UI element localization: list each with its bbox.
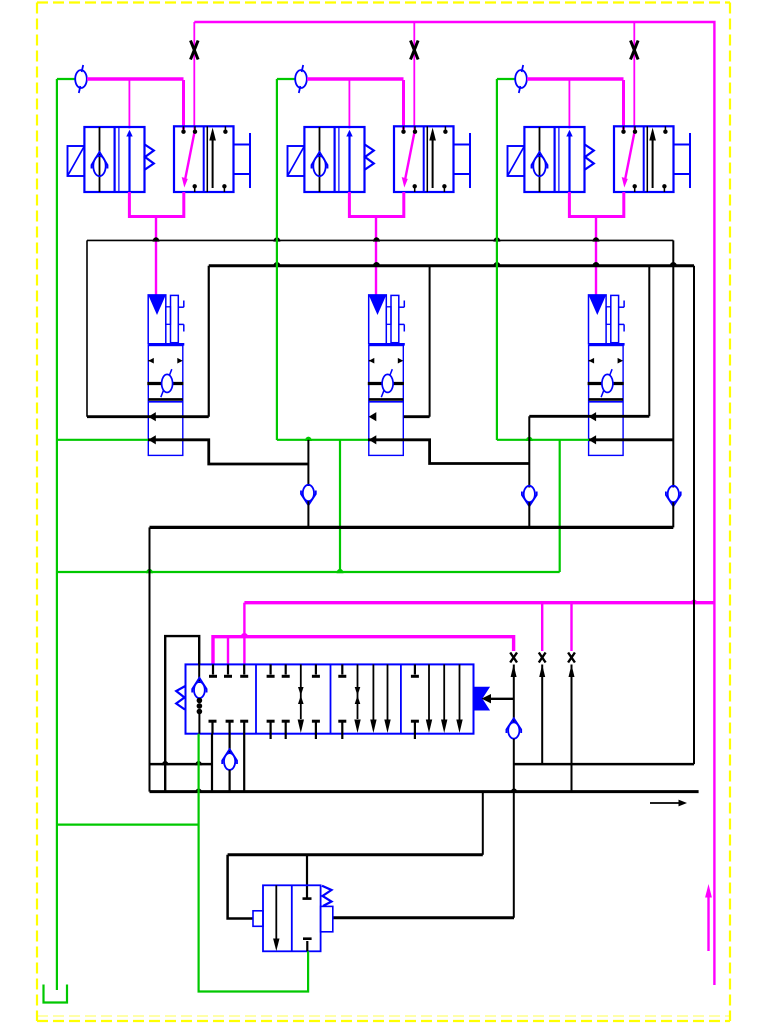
spring of pilot control valve xyxy=(322,886,332,906)
A-port arrow assembly 1 xyxy=(148,412,156,421)
wire: magenta drop from top rail to valve 1 pilot port xyxy=(193,22,195,130)
pilot valve Y3b body xyxy=(614,126,674,192)
cartridge valve assembly 1: main body xyxy=(148,346,183,456)
flow arrow inside valve Y1a xyxy=(128,134,130,191)
up arrow inside valve Y1b xyxy=(212,139,214,188)
magenta actuated path inside valve Y3b xyxy=(625,130,635,182)
wire: assembly 2 A-line xyxy=(404,415,430,418)
solenoid coil of valve Y3a xyxy=(508,146,525,176)
wire: magenta drop to pilot valve 2 port 1 xyxy=(402,80,405,130)
bottom port tick pilot control valve xyxy=(306,941,308,951)
internal check valve assembly 1 xyxy=(147,382,183,385)
wire: magenta drop to solenoid valve 2 xyxy=(348,79,350,129)
wire: magenta rail group 3 xyxy=(527,77,624,80)
relief outlet loop over block top xyxy=(165,636,199,792)
magenta actuated path inside valve Y1b xyxy=(185,130,195,182)
check valve V3 (top) xyxy=(515,70,527,88)
check valve under X1 xyxy=(508,722,519,738)
pilot arrow assembly 2 xyxy=(369,295,387,315)
check valve V2 (top) xyxy=(295,70,307,88)
plugged-line X symbol group 2 xyxy=(411,41,419,60)
green supply stub group 3 xyxy=(497,78,516,80)
straight path inside valve Y3b xyxy=(646,126,648,192)
wire: magenta drop to block port 3 xyxy=(243,603,245,665)
throttle symbols inside block xyxy=(300,664,302,719)
cartridge valve assembly 1: pilot head xyxy=(148,295,166,344)
green supply stub group 2 xyxy=(277,78,296,80)
wire: outlet flag to X1 riser xyxy=(489,698,514,700)
wire: green feed to assembly 1 B xyxy=(57,439,148,441)
up arrow inside valve Y3b xyxy=(652,139,654,188)
magenta flow direction arrow bottom right xyxy=(707,895,709,951)
pilot arrow assembly 3 xyxy=(589,295,607,315)
wire: block port 1 drop xyxy=(211,734,213,792)
manifold block body xyxy=(186,664,474,733)
wire: magenta drop to solenoid valve 1 xyxy=(128,79,130,129)
wire: green drop group 2 xyxy=(276,79,278,440)
B-port arrow assembly 3 xyxy=(589,435,597,444)
separator lines assembly 2 xyxy=(369,398,404,401)
wire: magenta jog below valves group 1 xyxy=(129,192,183,217)
wire: magenta rail group 2 xyxy=(307,77,404,80)
wire: X2 drop to mid line xyxy=(541,665,543,765)
port dots valve Y2b xyxy=(403,126,405,130)
plugged-line X symbol group 1 xyxy=(191,41,199,60)
wire: riser with check valve from B1 junction to pump rail xyxy=(307,440,309,486)
inlet arrows assembly 3 xyxy=(589,358,595,364)
pilot attachment box xyxy=(321,906,333,931)
wire: assembly 3 A-line xyxy=(529,415,649,418)
wire: green drop to lower green bus xyxy=(339,440,341,572)
A-port arrow assembly 2 xyxy=(369,412,377,421)
cartridge valve assembly 3: pilot head xyxy=(589,295,607,344)
solenoid coil of valve Y1a xyxy=(68,146,85,176)
A-port arrow assembly 3 xyxy=(589,412,597,421)
B-port arrow assembly 2 xyxy=(369,435,377,444)
wire: mid line 1 left xyxy=(150,763,213,766)
up arrowhead below X xyxy=(539,665,545,678)
wire: drop rail to assembly 2 A-line xyxy=(429,266,431,417)
wire: upper black rail (thin) xyxy=(87,239,673,241)
port dots valve Y1b xyxy=(183,126,185,130)
pilot arrow assembly 1 xyxy=(148,295,166,315)
wire: assembly 2 B-line black jog xyxy=(368,440,529,464)
wire: magenta drop to solenoid valve 3 xyxy=(568,79,570,129)
wire: pilot valve top line xyxy=(228,853,483,856)
plugged-line X symbol lower xyxy=(568,653,575,663)
solenoid valve Y1a body xyxy=(84,127,144,192)
pilot valve Y1b body xyxy=(174,126,234,192)
flow arrows inside block xyxy=(372,664,374,721)
cartridge valve assembly 2: pilot head xyxy=(369,295,387,344)
separator lines assembly 3 xyxy=(589,398,624,401)
straight path inside valve Y1b xyxy=(206,126,208,192)
wire: lower black rail (thick) xyxy=(209,264,694,267)
wire: mid line segment right xyxy=(514,763,694,766)
relief valve spring at block left xyxy=(176,686,185,710)
wire: magenta drop to X2 xyxy=(541,603,543,651)
wire: green drop to lower green bus right xyxy=(559,440,561,572)
wire: magenta drop to cartridge assembly 1 xyxy=(155,217,157,295)
wire: magenta drop to pilot valve 3 port 1 xyxy=(622,80,625,130)
return spring of valve Y1a xyxy=(145,145,154,170)
wire: drop from pump rail to manifold lines xyxy=(149,527,151,791)
actuator bracket of valve Y3b xyxy=(674,144,691,146)
return spring of valve Y2a xyxy=(365,145,374,170)
flow direction arrow xyxy=(650,802,681,804)
wire: magenta rail group 1 xyxy=(87,77,184,80)
up arrowhead below X xyxy=(511,665,517,678)
wire: green branch to tank line xyxy=(57,823,199,825)
wire: magenta jog below valves group 2 xyxy=(349,192,403,217)
inlet arrows assembly 2 xyxy=(369,358,375,364)
wire: magenta manifold rail B xyxy=(213,637,514,665)
check symbol inside valve Y1a xyxy=(99,127,101,192)
wire: magenta pilot supply top rail and right-side rail xyxy=(194,22,714,985)
wire: assembly 3 B-line black xyxy=(589,438,673,441)
down arrow inside pilot control valve xyxy=(275,885,277,942)
return spring of valve Y3a xyxy=(585,145,594,170)
check valve V1 (top) xyxy=(75,70,87,88)
wire: assembly 1 B-line black xyxy=(148,440,308,464)
wire: green feed to assembly 2 B xyxy=(277,439,368,441)
wire: magenta drop from top rail to valve 3 pilot port xyxy=(633,22,635,130)
wire: magenta jog below valves group 3 xyxy=(569,192,623,217)
check symbol inside valve Y2a xyxy=(319,127,321,192)
wire: riser from upper rail through check to pump rail right xyxy=(672,240,674,487)
straight path inside valve Y2b xyxy=(426,126,428,192)
internal check valve assembly 2 xyxy=(368,382,404,385)
wire: magenta drop to cartridge assembly 2 xyxy=(375,217,377,295)
plugged-line X symbol lower xyxy=(539,653,546,663)
wire: magenta drop to pilot valve 1 port 1 xyxy=(182,80,185,130)
check valve under block port 2 xyxy=(229,734,231,754)
wire: thick rail right end drop xyxy=(693,266,695,764)
separator lines assembly 1 xyxy=(148,398,183,401)
magenta actuated path inside valve Y2b xyxy=(405,130,415,182)
wire: thick rail left end drop xyxy=(208,266,210,417)
up arrow inside valve Y2b xyxy=(432,139,434,188)
pilot valve Y2b body xyxy=(394,126,454,192)
plugged-line X symbol group 3 xyxy=(631,41,639,60)
solenoid coil of pilot control valve xyxy=(253,911,263,927)
flow arrow inside valve Y3a xyxy=(568,134,570,191)
flow arrow inside valve Y2a xyxy=(348,134,350,191)
port dots valve Y3b xyxy=(623,126,625,130)
wire: magenta manifold rail A xyxy=(244,601,714,604)
wire: pump pressure rail (thick) xyxy=(150,526,674,529)
B-port arrow assembly 1 xyxy=(148,435,156,444)
wire: magenta drop to block port 2 xyxy=(227,637,229,665)
wire: rail drop left to assembly 1 A-line xyxy=(86,240,88,416)
up arrowhead below X xyxy=(569,665,575,678)
wire: green feed to assembly 3 B xyxy=(497,439,589,441)
wire: riser X1/check to pilot valve line xyxy=(513,739,515,918)
relief/check valve inside block section 1 xyxy=(198,664,200,683)
wire: green block drain to pilot valve bottom xyxy=(199,734,309,992)
pilot control valve body (bottom) xyxy=(263,885,321,951)
inlet arrows assembly 1 xyxy=(148,358,154,364)
wire: X3 drop to lower line xyxy=(571,665,573,792)
tank symbol xyxy=(44,985,68,1003)
wire: pilot valve right line xyxy=(333,916,514,919)
wire: drop tank line to pilot valve top line xyxy=(482,792,484,855)
solenoid valve Y3a body xyxy=(524,127,584,192)
wire: magenta drop to cartridge assembly 3 xyxy=(595,217,597,295)
check symbol inside valve Y3a xyxy=(539,127,541,192)
wire: pilot valve top port xyxy=(306,855,308,899)
actuator bracket of valve Y1b xyxy=(234,144,251,146)
manifold block top port stubs xyxy=(212,664,214,674)
wire: tank line (thick lower) xyxy=(150,790,699,793)
wire: pilot valve left solenoid line xyxy=(228,855,253,919)
green supply stub group 1 xyxy=(57,78,76,80)
actuator bracket of valve Y2b xyxy=(454,144,471,146)
wire: X1 drop to check valve xyxy=(513,665,515,724)
plugged-line X symbol lower xyxy=(510,653,517,663)
wire: lower green bus xyxy=(57,571,560,573)
wire: drop rail to assembly 3 A-line xyxy=(648,266,650,417)
cartridge valve assembly 2: main body xyxy=(369,346,404,456)
wire: magenta drop from top rail to valve 2 pilot port xyxy=(413,22,415,130)
solenoid valve Y2a body xyxy=(304,127,364,192)
arrowhead into outlet flag xyxy=(482,694,492,703)
outlet flag symbol at block right xyxy=(474,688,489,710)
internal check valve assembly 3 xyxy=(588,382,624,385)
cartridge valve assembly 3: main body xyxy=(589,346,624,456)
wire: green drop group 3 xyxy=(496,79,498,440)
solenoid coil of valve Y2a xyxy=(288,146,305,176)
manifold block bottom port stubs xyxy=(211,722,213,734)
wire: block port 3 drop xyxy=(243,734,245,792)
wire: main green return line left xyxy=(56,79,58,990)
wire: magenta drop to X3 xyxy=(570,603,572,651)
wire: riser with check valve from A3/B2 jog to pump rail xyxy=(528,416,530,487)
wire: assembly 1 A-line xyxy=(87,415,209,418)
